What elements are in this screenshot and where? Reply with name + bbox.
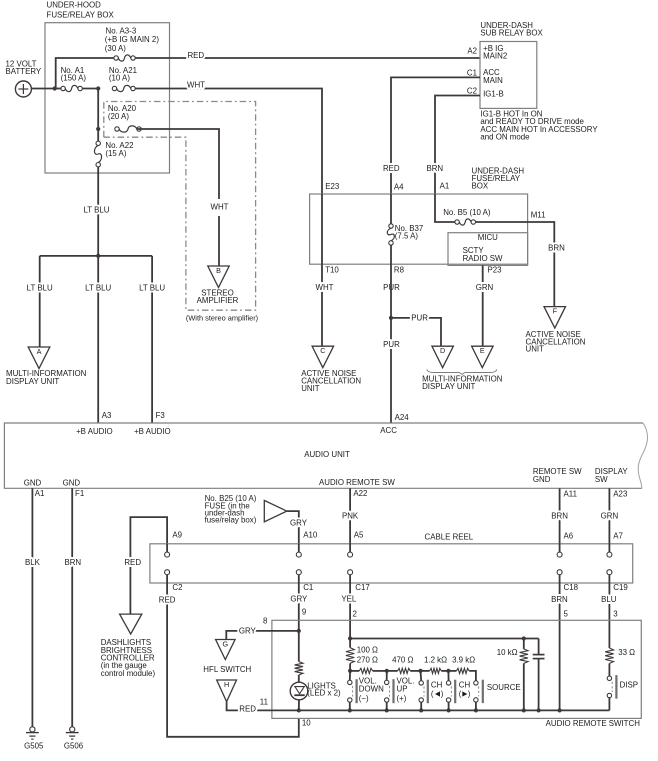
resistor 33 ohm — [605, 648, 613, 663]
wire A1 to fuse B5 — [435, 194, 455, 222]
svg-text:H: H — [224, 680, 229, 689]
svg-text:(+): (+) — [397, 694, 407, 703]
svg-text:(: ( — [431, 689, 434, 698]
wire fuse B37 to R8 — [390, 245, 392, 264]
svg-text:RADIO SW: RADIO SW — [463, 254, 503, 263]
svg-text:A24: A24 — [395, 413, 410, 422]
connector F active noise cancellation unit — [544, 307, 566, 329]
node J6 (pin 9 / pin 8 junction) — [297, 629, 301, 633]
svg-text:RED: RED — [124, 558, 141, 567]
cable reel contacts A10-C1 — [296, 552, 301, 557]
lights resistor — [295, 662, 303, 676]
node J2 — [96, 86, 100, 90]
node CH up bus — [447, 708, 451, 712]
svg-text:UNIT: UNIT — [526, 345, 545, 354]
svg-text:C: C — [320, 346, 325, 355]
svg-text:YEL: YEL — [341, 594, 357, 603]
svg-text:1.2 kΩ: 1.2 kΩ — [424, 656, 447, 665]
connector dashlights brightness controller — [120, 614, 142, 634]
svg-text:MICU: MICU — [478, 233, 498, 242]
node BRN pin5 bus — [558, 708, 562, 712]
bottom bus wire — [299, 709, 610, 711]
svg-text:P23: P23 — [488, 265, 503, 274]
svg-text:A1: A1 — [440, 182, 450, 191]
svg-text:A23: A23 — [613, 489, 628, 498]
svg-text:B: B — [216, 266, 221, 275]
svg-text:G506: G506 — [64, 742, 84, 751]
svg-text:BLU: BLU — [601, 595, 617, 604]
svg-text:DISPLAY UNIT: DISPLAY UNIT — [6, 377, 59, 386]
wire pin 8 GRY to HFL switch G — [226, 631, 298, 640]
svg-text:+B AUDIO: +B AUDIO — [134, 427, 171, 436]
micu box — [448, 233, 528, 266]
svg-text:BOX: BOX — [472, 182, 489, 191]
svg-text:A22: A22 — [353, 489, 367, 498]
wire 1.2k to node J12 — [421, 670, 430, 672]
wire A4 to fuse B37 — [390, 194, 392, 224]
svg-text:AUDIO REMOTE SW: AUDIO REMOTE SW — [319, 478, 395, 487]
wire node J2 down to node J3 — [97, 89, 99, 130]
svg-text:F1: F1 — [75, 489, 84, 498]
cable reel contacts A5-C17 — [348, 552, 353, 557]
svg-text:CH: CH — [431, 680, 443, 689]
svg-text:(LED x 2): (LED x 2) — [307, 689, 341, 698]
svg-text:SW: SW — [595, 475, 608, 484]
svg-text:DOWN: DOWN — [359, 685, 384, 694]
svg-text:WHT: WHT — [316, 283, 334, 292]
svg-text:SOURCE: SOURCE — [487, 683, 521, 692]
resistor 470 ohm — [398, 668, 411, 673]
under-hood fuse/relay box — [45, 23, 170, 173]
node SOURCE bus — [474, 708, 478, 712]
svg-text:PUR: PUR — [383, 340, 400, 349]
svg-text:FUSE/RELAY BOX: FUSE/RELAY BOX — [47, 11, 115, 20]
fuse B25 triangle — [264, 500, 287, 521]
wire C2 IG1-B to A1 drop — [435, 96, 480, 195]
wire WHT down to stereo amplifier — [218, 216, 220, 266]
svg-text:GND: GND — [63, 479, 81, 488]
switch VOL DOWN — [348, 680, 352, 684]
svg-text:(20 A): (20 A) — [108, 112, 129, 121]
svg-text:F: F — [553, 306, 558, 315]
fuse A22 — [96, 141, 100, 145]
svg-text:GRN: GRN — [476, 283, 494, 292]
wire J12 to CH up — [447, 671, 449, 681]
fuse B5 — [455, 220, 459, 224]
svg-text:AUDIO UNIT: AUDIO UNIT — [304, 450, 350, 459]
wire RED to sub relay box A2 — [135, 57, 480, 59]
wire C17 YEL to pin 2 — [349, 583, 351, 639]
svg-text:): ) — [441, 689, 444, 698]
wire node J1 to fuse A1 — [55, 88, 61, 90]
wire LT BLU to F3 — [151, 256, 153, 423]
node J8 — [348, 636, 352, 640]
wire 3.9k to SOURCE switch — [448, 670, 456, 672]
svg-text:fuse/relay box): fuse/relay box) — [205, 516, 257, 525]
wire J10 to VOL UP — [386, 671, 388, 680]
wire A23 GRN to A7 — [608, 488, 610, 544]
svg-text:2: 2 — [353, 610, 357, 619]
svg-text:A7: A7 — [613, 532, 623, 541]
wire pin 2 top bus — [350, 638, 538, 640]
svg-text:C18: C18 — [564, 583, 579, 592]
svg-text:AUDIO REMOTE SWITCH: AUDIO REMOTE SWITCH — [546, 719, 641, 728]
wire fuse B25 to A10 — [287, 511, 299, 544]
switch DISP — [607, 676, 611, 680]
wire E23 to T10 through box — [321, 194, 323, 264]
fuse B37 — [389, 224, 393, 228]
svg-text:A3: A3 — [102, 411, 112, 420]
svg-text:33 Ω: 33 Ω — [618, 648, 635, 657]
connector C active noise cancellation unit — [312, 346, 334, 368]
svg-text:C19: C19 — [613, 583, 628, 592]
wire 100ohm to ladder — [349, 639, 351, 648]
node J3 — [96, 127, 100, 131]
under-dash fuse/relay box — [310, 194, 528, 264]
wire A11 BRN to A6 — [559, 488, 561, 544]
battery B1 — [15, 81, 31, 97]
node J9 — [348, 669, 352, 673]
connector G HFL switch — [216, 640, 236, 660]
svg-text:T10: T10 — [325, 265, 339, 274]
svg-text:LT BLU: LT BLU — [139, 283, 165, 292]
fuse A20 — [115, 127, 119, 131]
svg-text:R8: R8 — [394, 265, 405, 274]
svg-text:DISPLAY UNIT: DISPLAY UNIT — [422, 382, 475, 391]
svg-text:LT BLU: LT BLU — [27, 283, 53, 292]
resistor 270 ohm — [359, 668, 373, 673]
connector H HFL switch — [217, 680, 237, 702]
resistor 100 ohm — [346, 648, 354, 664]
cable reel contacts A7-C19 — [607, 552, 612, 557]
wire A1 BLK to G505 — [31, 488, 33, 726]
svg-text:AMPLIFIER: AMPLIFIER — [197, 296, 239, 305]
wire C18 BRN to pin 5 — [559, 583, 561, 710]
wire R8 to node J5 — [390, 264, 392, 318]
wire LT BLU to unit A — [39, 256, 41, 347]
connector D multi-information display unit — [432, 346, 454, 368]
svg-text:(10 A): (10 A) — [109, 74, 130, 83]
wire GRY to lights resistor — [298, 631, 300, 662]
svg-text:HFL SWITCH: HFL SWITCH — [203, 665, 251, 674]
wire node J1 up to RED feed — [56, 58, 114, 89]
svg-text:G505: G505 — [24, 742, 44, 751]
svg-text:A: A — [37, 347, 42, 356]
wire C2 RED down-around to pin 10 — [167, 583, 299, 737]
svg-text:C2: C2 — [467, 87, 477, 96]
node J5 PUR branch — [389, 316, 393, 320]
svg-text:GRY: GRY — [290, 594, 308, 603]
connector E multi-information display unit — [472, 346, 494, 368]
node capacitor bus — [537, 708, 541, 712]
under-dash sub relay box — [480, 42, 537, 109]
switch VOL UP — [385, 680, 389, 684]
switch CH up — [446, 681, 450, 685]
wire C1 ACC MAIN to A4 drop — [391, 77, 480, 194]
svg-text:MAIN2: MAIN2 — [483, 52, 507, 61]
dash-dot outline (with stereo amplifier option) — [104, 102, 256, 311]
svg-text:ACC: ACC — [380, 426, 397, 435]
wire VOL DOWN to bus — [349, 702, 351, 710]
svg-text:GND: GND — [24, 479, 42, 488]
wire A22 PNK to A5 — [349, 488, 351, 544]
node J10 — [385, 669, 389, 673]
svg-text:WHT: WHT — [211, 203, 229, 212]
svg-text:A10: A10 — [303, 531, 318, 540]
svg-text:BATTERY: BATTERY — [6, 67, 42, 76]
svg-text:A9: A9 — [172, 531, 182, 540]
wire 10k to bus — [523, 663, 525, 710]
svg-text:RED: RED — [383, 164, 400, 173]
svg-text:A6: A6 — [564, 532, 574, 541]
switch SOURCE — [474, 681, 478, 685]
resistor 1.2k — [430, 668, 442, 673]
svg-text:CH: CH — [459, 680, 471, 689]
svg-text:8: 8 — [263, 617, 268, 626]
svg-text:A1: A1 — [35, 489, 45, 498]
wire C1 GRY to pin 9 — [298, 583, 300, 631]
wire CH up to bus — [448, 702, 450, 710]
wire HFL H to pin 11 — [227, 702, 299, 711]
svg-text:+B AUDIO: +B AUDIO — [76, 427, 113, 436]
wire node J3 to fuse A22 — [97, 129, 99, 141]
svg-text:BRN: BRN — [64, 558, 81, 567]
node VOL UP bus — [385, 708, 389, 712]
svg-text:BRN: BRN — [426, 164, 443, 173]
wire PUR down to A24 — [390, 318, 392, 423]
svg-text:C1: C1 — [303, 583, 313, 592]
node J1 — [53, 86, 57, 90]
svg-text:(150 A): (150 A) — [61, 74, 87, 83]
cable reel box — [150, 544, 633, 583]
svg-text:470 Ω: 470 Ω — [392, 656, 413, 665]
svg-text:M11: M11 — [531, 211, 546, 220]
wire fuse A20 to WHT amplifier drop — [137, 129, 219, 199]
fuse A3-3 — [114, 56, 118, 60]
wire ladder row — [350, 670, 359, 672]
wire 10k top — [523, 639, 525, 649]
node VOL DOWN bus — [348, 708, 352, 712]
svg-text:D: D — [440, 346, 445, 355]
svg-text:PNK: PNK — [342, 512, 359, 521]
wire T10 WHT to unit C — [321, 264, 323, 346]
wire C19 BLU to pin 3 — [608, 583, 610, 648]
svg-text:(: ( — [459, 689, 462, 698]
brace for D and E units — [427, 370, 497, 375]
svg-text:(−): (−) — [359, 694, 369, 703]
svg-text:MAIN: MAIN — [483, 76, 503, 85]
svg-text:F3: F3 — [156, 411, 166, 420]
node J11 — [418, 669, 422, 673]
connector B stereo amplifier — [208, 266, 229, 288]
wire fuse A22 down to LT BLU node — [97, 167, 99, 256]
svg-text:E: E — [480, 346, 485, 355]
wire J11 to CH down — [420, 671, 423, 681]
wire 270 to node J10 — [373, 670, 387, 672]
svg-text:(With stereo amplifier): (With stereo amplifier) — [186, 314, 258, 323]
svg-text:SUB RELAY BOX: SUB RELAY BOX — [480, 28, 543, 37]
resistor 10k — [520, 649, 528, 664]
svg-text:LT BLU: LT BLU — [85, 283, 111, 292]
switch CH down — [419, 681, 423, 685]
svg-text:and ON mode: and ON mode — [480, 133, 530, 142]
svg-text:3: 3 — [613, 610, 618, 619]
svg-text:10: 10 — [302, 719, 311, 728]
wire LT BLU to A3 — [97, 256, 99, 423]
svg-text:control module): control module) — [101, 669, 156, 678]
svg-text:UNDER-HOOD: UNDER-HOOD — [47, 1, 102, 10]
svg-text:A4: A4 — [394, 183, 404, 192]
wire CH down to bus — [420, 702, 422, 710]
capacitor C1 — [538, 639, 540, 655]
wire DISP to bus — [608, 698, 610, 711]
node J7 (pin 11 junction) — [297, 708, 301, 712]
fuse A1 — [61, 86, 65, 90]
svg-text:A5: A5 — [354, 531, 364, 540]
wire VOL UP to bus — [386, 702, 388, 710]
svg-text:RED: RED — [187, 51, 204, 60]
svg-text:BRN: BRN — [548, 244, 565, 253]
svg-text:BRN: BRN — [551, 595, 568, 604]
node 10k bus — [522, 708, 526, 712]
svg-text:BRN: BRN — [551, 511, 568, 520]
wire 470 to node J11 — [387, 670, 398, 672]
svg-text:RED: RED — [239, 704, 256, 713]
svg-text:5: 5 — [564, 610, 569, 619]
svg-text:No. B5 (10 A): No. B5 (10 A) — [443, 208, 491, 217]
LED lights (LED x 2) — [290, 682, 308, 700]
wire J9 to VOL DOWN — [349, 671, 351, 680]
wire LT BLU split bus — [40, 255, 152, 257]
node J12 — [446, 669, 450, 673]
connector A multi-information display unit — [28, 347, 50, 369]
wire WHT to E23 drop — [135, 89, 322, 195]
svg-text:10 kΩ: 10 kΩ — [497, 648, 518, 657]
svg-text:(30 A): (30 A) — [105, 44, 126, 53]
ground G506 — [70, 727, 75, 732]
svg-text:C2: C2 — [172, 583, 182, 592]
svg-text:3.9 kΩ: 3.9 kΩ — [452, 656, 475, 665]
cable reel contacts A6-C18 — [557, 552, 562, 557]
svg-text:E23: E23 — [325, 182, 340, 191]
svg-text:RED: RED — [159, 596, 176, 605]
wire resistor to LED — [298, 675, 300, 682]
svg-text:A11: A11 — [564, 489, 577, 498]
svg-text:CABLE REEL: CABLE REEL — [425, 532, 474, 541]
svg-text:(7.5 A): (7.5 A) — [395, 232, 419, 241]
svg-text:100 Ω: 100 Ω — [357, 645, 378, 654]
svg-text:UNIT: UNIT — [301, 384, 320, 393]
svg-text:(15 A): (15 A) — [105, 149, 126, 158]
svg-text:9: 9 — [302, 608, 307, 617]
wire fuse A1 to node J2 — [82, 88, 98, 90]
svg-text:A2: A2 — [467, 46, 477, 55]
wire LED to node J7 — [298, 700, 300, 711]
resistor 3.9k — [456, 668, 469, 673]
wire A9 to dashlights controller — [130, 517, 167, 614]
svg-text:UP: UP — [397, 685, 408, 694]
svg-text:DISP: DISP — [620, 681, 638, 690]
svg-text:C1: C1 — [467, 69, 477, 78]
svg-text:G: G — [223, 639, 229, 648]
wire PUR branch to unit D — [391, 318, 441, 346]
node J4 LT BLU split — [96, 254, 100, 258]
svg-text:IG1-B: IG1-B — [483, 89, 504, 98]
svg-text:): ) — [468, 689, 471, 698]
node 10k top — [522, 636, 526, 640]
audio remote switch box — [272, 620, 641, 718]
svg-text:GND: GND — [533, 475, 551, 484]
cable reel contacts A9-C2 — [165, 552, 170, 557]
svg-text:GRY: GRY — [290, 519, 308, 528]
node CH down bus — [419, 708, 423, 712]
svg-text:BLK: BLK — [25, 558, 41, 567]
wire 33ohm to DISP — [608, 663, 610, 676]
fuse A21 — [112, 86, 116, 90]
wire battery to node J1 — [31, 88, 54, 90]
svg-text:270 Ω: 270 Ω — [357, 656, 378, 665]
ground G505 — [30, 727, 35, 732]
wire SOURCE to bus — [475, 702, 477, 710]
svg-text:LT BLU: LT BLU — [83, 206, 109, 215]
svg-text:PUR: PUR — [411, 313, 428, 322]
wire fuse B5 to M11 and down to F — [475, 222, 554, 307]
svg-text:WHT: WHT — [187, 80, 205, 89]
svg-text:11: 11 — [260, 698, 268, 707]
audio unit box — [4, 423, 643, 488]
wire F1 BRN to G506 — [71, 488, 73, 726]
svg-text:C17: C17 — [355, 583, 369, 592]
svg-text:GRY: GRY — [239, 626, 257, 635]
wire P23 GRN to unit E — [482, 265, 484, 346]
svg-text:GRN: GRN — [601, 511, 619, 520]
